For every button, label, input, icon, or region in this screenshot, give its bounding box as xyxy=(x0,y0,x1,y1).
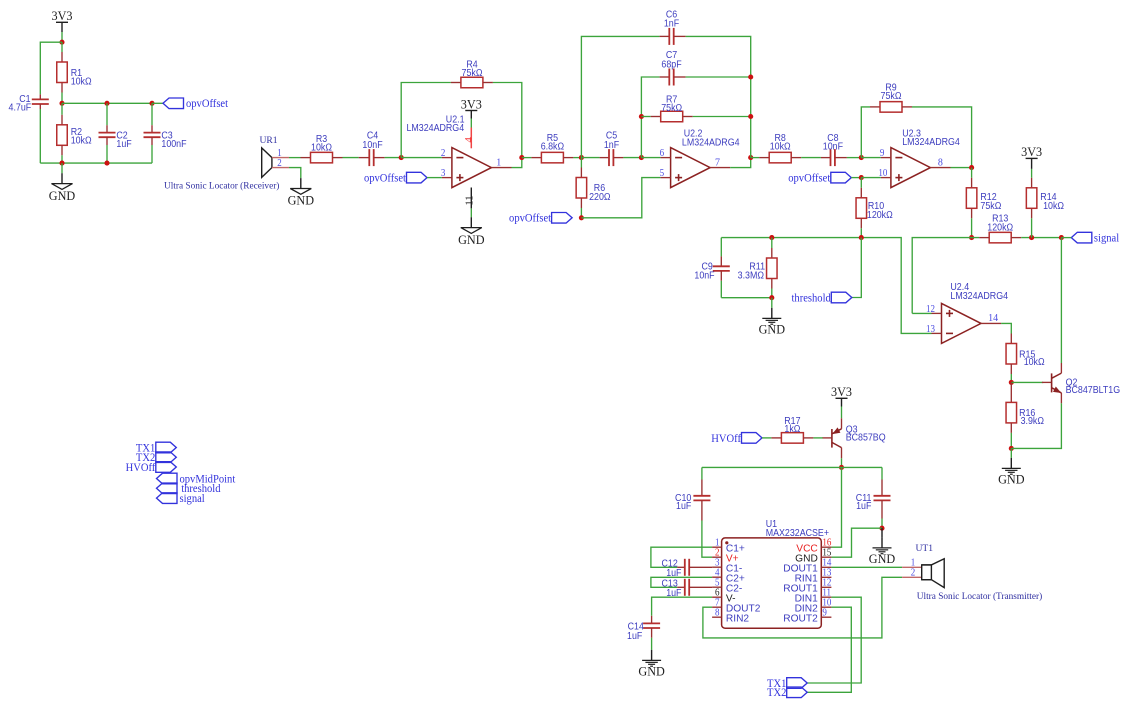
wire xyxy=(62,102,152,104)
svg-text:GND: GND xyxy=(759,323,786,337)
svg-text:10: 10 xyxy=(822,598,831,609)
svg-text:3V3: 3V3 xyxy=(831,385,852,399)
resistor R8 xyxy=(759,157,769,159)
global label TX1 stack xyxy=(156,442,177,453)
svg-text:threshold: threshold xyxy=(791,292,831,304)
node junction xyxy=(59,161,64,166)
svg-text:GND: GND xyxy=(869,552,896,566)
pin 9 U1 xyxy=(821,616,831,618)
pin 13 U2.4 xyxy=(932,332,942,334)
svg-text:10kΩ: 10kΩ xyxy=(311,142,332,154)
pin 1 U2.1 output xyxy=(491,167,511,169)
wire threshold rail xyxy=(721,238,931,334)
wire xyxy=(61,22,63,32)
wire pin10 to TX2 xyxy=(807,607,851,692)
wire xyxy=(721,297,772,299)
svg-text:75kΩ: 75kΩ xyxy=(980,200,1001,212)
pin 2 UR1 xyxy=(272,167,289,169)
pin 5 U2.2 xyxy=(661,177,671,179)
svg-text:1uF: 1uF xyxy=(116,138,131,150)
wire xyxy=(762,437,771,439)
capacitor C4 xyxy=(359,157,370,159)
wire bottom rail xyxy=(40,162,152,164)
wire xyxy=(151,145,153,163)
node junction xyxy=(839,465,844,470)
node junction xyxy=(399,155,404,160)
node junction xyxy=(59,101,64,106)
op-amp U2.3 xyxy=(891,148,931,188)
svg-text:opvOffset: opvOffset xyxy=(364,172,406,184)
svg-text:12: 12 xyxy=(926,304,935,315)
svg-text:1: 1 xyxy=(277,149,282,160)
svg-text:10kΩ: 10kΩ xyxy=(770,141,791,153)
svg-text:GND: GND xyxy=(638,665,665,679)
svg-text:1uF: 1uF xyxy=(627,631,642,643)
svg-text:1nF: 1nF xyxy=(664,18,679,30)
global label opvOffset U2.3 xyxy=(831,172,852,183)
wire xyxy=(912,312,931,314)
capacitor C11 xyxy=(881,480,883,496)
wire xyxy=(841,458,843,467)
node junction xyxy=(859,175,864,180)
wire xyxy=(881,519,883,529)
resistor R7 xyxy=(651,116,661,118)
svg-text:GND: GND xyxy=(998,473,1025,487)
svg-text:opvOffset: opvOffset xyxy=(186,98,228,110)
node junction xyxy=(969,235,974,240)
wire xyxy=(841,407,843,419)
node junction xyxy=(59,40,64,45)
svg-text:220Ω: 220Ω xyxy=(589,192,610,204)
ground GND C11 xyxy=(881,528,883,537)
wire xyxy=(861,177,881,179)
svg-text:signal: signal xyxy=(180,493,205,505)
ground GND R11 xyxy=(771,308,773,319)
svg-text:4.7uF: 4.7uF xyxy=(9,102,32,114)
svg-text:LM324ADRG4: LM324ADRG4 xyxy=(407,123,465,135)
pin 3 U2.1 xyxy=(442,177,452,179)
node junction xyxy=(104,161,109,166)
global label HVOff stack xyxy=(156,462,177,473)
svg-text:10kΩ: 10kΩ xyxy=(71,135,92,147)
node junction xyxy=(1009,380,1014,385)
wire xyxy=(61,42,63,52)
svg-text:ROUT2: ROUT2 xyxy=(783,613,818,624)
svg-text:2: 2 xyxy=(441,149,446,160)
pin 5 U1 xyxy=(712,586,722,588)
wire xyxy=(693,116,751,118)
pin 9 U2.3 xyxy=(881,157,891,159)
wire xyxy=(720,281,722,298)
wire xyxy=(289,157,301,159)
wire xyxy=(470,111,472,119)
pin emitter Q2 xyxy=(1060,393,1062,403)
global label opvOffset U2.1 xyxy=(407,172,428,183)
wire R4 loop left xyxy=(401,83,451,158)
svg-text:75kΩ: 75kΩ xyxy=(661,102,682,114)
wire xyxy=(581,178,660,218)
global label signal stack xyxy=(157,493,178,504)
svg-text:1uF: 1uF xyxy=(856,500,871,512)
wire R9 loop xyxy=(861,107,870,158)
wire xyxy=(686,76,751,78)
pin 1 UT1 xyxy=(902,566,922,568)
svg-text:1: 1 xyxy=(911,558,916,569)
node junction xyxy=(748,155,753,160)
svg-text:10kΩ: 10kΩ xyxy=(1043,200,1064,212)
wire xyxy=(771,289,773,298)
wire xyxy=(702,521,712,558)
wire xyxy=(580,208,582,218)
ground GND C14 xyxy=(651,650,653,661)
svg-text:3V3: 3V3 xyxy=(1021,145,1042,159)
wire pin4 to C13 xyxy=(651,577,712,587)
wire xyxy=(39,94,41,99)
svg-text:Ultra Sonic Locator (Transmitt: Ultra Sonic Locator (Transmitter) xyxy=(917,591,1042,602)
svg-text:1: 1 xyxy=(715,538,720,549)
pin1 dot xyxy=(725,541,728,544)
resistor R13 xyxy=(979,237,989,239)
pin 12 U2.4 xyxy=(932,312,942,314)
svg-text:6.8kΩ: 6.8kΩ xyxy=(541,141,564,153)
pin 13 U1 xyxy=(821,576,831,578)
svg-text:1uF: 1uF xyxy=(676,500,691,512)
pin 14 U2.4 output xyxy=(981,322,1001,324)
pin 4 U1 xyxy=(712,576,722,578)
wire xyxy=(61,163,63,173)
wire xyxy=(1060,238,1062,363)
ground GND xyxy=(61,173,63,183)
svg-text:3.3MΩ: 3.3MΩ xyxy=(738,270,764,282)
wire xyxy=(106,103,108,125)
wire pin1 to C12 xyxy=(651,547,712,567)
svg-text:120kΩ: 120kΩ xyxy=(987,222,1013,234)
node junction xyxy=(748,74,753,79)
capacitor C5 xyxy=(600,157,609,159)
svg-text:15: 15 xyxy=(822,548,831,559)
ground GND U2.1 xyxy=(470,217,472,227)
pin 10 U1 xyxy=(821,606,831,608)
wire xyxy=(401,157,442,159)
wire xyxy=(1010,374,1012,382)
ic U1 MAX232 xyxy=(722,538,822,628)
wire threshold stub xyxy=(852,238,862,298)
wire xyxy=(39,104,41,109)
node junction xyxy=(519,155,524,160)
pin base Q3 xyxy=(823,437,832,439)
svg-text:10kΩ: 10kΩ xyxy=(1024,357,1045,369)
svg-text:120kΩ: 120kΩ xyxy=(867,210,893,222)
svg-text:3V3: 3V3 xyxy=(461,97,482,111)
svg-text:14: 14 xyxy=(822,558,831,569)
wire xyxy=(522,157,532,159)
svg-text:6: 6 xyxy=(660,149,665,160)
capacitor C14 xyxy=(651,616,653,624)
wire R4 loop right xyxy=(493,83,522,158)
speaker UT1 xyxy=(922,565,932,580)
resistor R16 xyxy=(1010,382,1012,402)
wire xyxy=(427,177,442,179)
wire xyxy=(512,158,522,168)
svg-text:UR1: UR1 xyxy=(259,135,277,146)
pin 11 U2.1 xyxy=(470,188,472,209)
svg-text:5: 5 xyxy=(715,578,720,589)
svg-text:opvOffset: opvOffset xyxy=(788,172,830,184)
resistor R12 xyxy=(971,168,973,178)
wire xyxy=(1031,169,1033,178)
wire xyxy=(623,157,641,159)
wire xyxy=(971,218,973,237)
svg-text:2: 2 xyxy=(715,548,720,559)
ground GND xyxy=(300,178,302,188)
svg-text:RIN2: RIN2 xyxy=(726,613,750,624)
svg-text:LM324ADRG4: LM324ADRG4 xyxy=(682,137,740,149)
wire signal rail xyxy=(912,238,979,314)
node junction xyxy=(579,215,584,220)
wire xyxy=(813,437,823,439)
pin 6 U1 xyxy=(712,596,722,598)
svg-text:68pF: 68pF xyxy=(661,59,681,71)
svg-text:2: 2 xyxy=(277,159,282,170)
pin 1 U1 xyxy=(712,546,722,548)
svg-text:4: 4 xyxy=(463,137,475,143)
svg-text:LM324ADRG4: LM324ADRG4 xyxy=(902,137,960,149)
svg-text:7: 7 xyxy=(715,598,720,609)
transistor Q3 xyxy=(841,418,843,429)
global label opvOffset xyxy=(163,98,184,109)
wire xyxy=(831,467,841,547)
resistor R17 xyxy=(771,437,781,439)
pin 14 U1 xyxy=(821,566,831,568)
node junction xyxy=(769,295,774,300)
pin 11 U1 xyxy=(821,596,831,598)
wire xyxy=(1021,237,1061,239)
node junction xyxy=(1059,235,1064,240)
pin 2 U2.1 xyxy=(442,157,452,159)
resistor R3 xyxy=(301,157,311,159)
svg-text:13: 13 xyxy=(822,568,831,579)
capacitor C12 xyxy=(677,566,685,568)
pin 1 UR1 xyxy=(272,157,289,159)
wire xyxy=(151,103,153,125)
svg-text:UT1: UT1 xyxy=(916,543,934,554)
node junction xyxy=(859,155,864,160)
wire xyxy=(61,103,63,115)
svg-text:MAX232ACSE+: MAX232ACSE+ xyxy=(766,527,830,539)
wire pin11 to TX1 xyxy=(807,597,861,683)
svg-text:11: 11 xyxy=(822,588,831,599)
wire xyxy=(851,177,861,179)
wire xyxy=(573,157,581,159)
pin 12 U1 xyxy=(821,586,831,588)
svg-text:75kΩ: 75kΩ xyxy=(881,90,902,102)
wire xyxy=(289,168,301,179)
wire xyxy=(106,145,108,163)
transistor Q2 xyxy=(1042,381,1052,383)
wire xyxy=(152,102,163,104)
wire xyxy=(686,36,751,157)
wire xyxy=(641,116,650,118)
svg-text:1nF: 1nF xyxy=(604,139,619,151)
global label opvMidPoint xyxy=(157,473,178,484)
svg-text:6: 6 xyxy=(715,588,720,599)
pin 16 U1 xyxy=(821,546,831,548)
node junction xyxy=(748,114,753,119)
pin 8 U1 xyxy=(712,616,722,618)
svg-text:8: 8 xyxy=(938,157,943,168)
wire xyxy=(61,155,63,163)
resistor R6 xyxy=(580,158,582,168)
wire xyxy=(730,158,751,168)
wire xyxy=(771,298,773,308)
wire pin6 to C14 xyxy=(652,597,713,616)
node junction xyxy=(1009,446,1014,451)
svg-text:9: 9 xyxy=(822,608,827,619)
svg-text:5: 5 xyxy=(660,169,665,180)
wire C9 leg xyxy=(720,238,722,257)
wire xyxy=(1010,448,1012,458)
wire C7 row xyxy=(641,77,659,158)
op-amp U2.1 xyxy=(452,148,492,188)
global label TX2 xyxy=(787,687,808,698)
pin 8 U2.3 output xyxy=(930,167,950,169)
svg-text:10kΩ: 10kΩ xyxy=(71,76,92,88)
global label TX2 stack xyxy=(156,452,177,463)
resistor R15 xyxy=(1010,334,1012,344)
wire xyxy=(1011,403,1061,448)
svg-text:16: 16 xyxy=(822,538,831,549)
node junction xyxy=(879,526,884,531)
resistor R2 xyxy=(61,115,63,125)
wire xyxy=(343,157,359,159)
capacitor C10 xyxy=(701,480,703,496)
svg-text:GND: GND xyxy=(288,194,315,208)
wire xyxy=(40,42,62,94)
svg-text:1: 1 xyxy=(496,157,501,168)
svg-text:opvOffset: opvOffset xyxy=(509,212,551,224)
capacitor C9 xyxy=(720,256,722,266)
svg-text:Ultra Sonic Locator (Receiver): Ultra Sonic Locator (Receiver) xyxy=(164,181,279,192)
wire xyxy=(61,32,63,42)
svg-text:8: 8 xyxy=(715,608,720,619)
capacitor C13 xyxy=(677,586,685,588)
wire xyxy=(847,157,861,159)
pin 6 U2.2 xyxy=(661,157,671,159)
wire 3V3 rail xyxy=(702,466,882,468)
svg-text:13: 13 xyxy=(926,324,935,335)
global label opvOffset R6 xyxy=(552,213,573,224)
wire xyxy=(831,528,882,557)
wire xyxy=(1001,323,1011,333)
wire pin7 route xyxy=(703,577,902,638)
wire xyxy=(1031,158,1033,169)
pin 7 U2.2 output xyxy=(710,167,730,169)
svg-text:4: 4 xyxy=(715,568,720,579)
wire C6 row xyxy=(581,36,659,157)
resistor R11 xyxy=(771,238,773,248)
node junction xyxy=(149,101,154,106)
svg-text:HVOff: HVOff xyxy=(711,432,741,444)
capacitor C2 xyxy=(106,125,108,132)
capacitor C8 xyxy=(821,157,831,159)
global label TX1 xyxy=(787,678,808,689)
svg-text:TX2: TX2 xyxy=(767,687,786,699)
node junction xyxy=(969,165,974,170)
svg-text:10nF: 10nF xyxy=(362,139,382,151)
op-amp U2.4 xyxy=(942,303,982,343)
resistor R5 xyxy=(531,157,541,159)
global label HVOff xyxy=(742,433,763,444)
svg-text:signal: signal xyxy=(1094,232,1119,244)
capacitor C3 xyxy=(151,125,153,132)
wire xyxy=(881,467,883,479)
resistor R10 xyxy=(860,178,862,188)
wire xyxy=(651,638,653,650)
svg-text:75kΩ: 75kΩ xyxy=(462,67,483,79)
wire xyxy=(1010,433,1012,449)
wire xyxy=(841,398,843,406)
svg-text:100nF: 100nF xyxy=(161,138,186,150)
svg-text:LM324ADRG4: LM324ADRG4 xyxy=(950,290,1008,302)
ground GND Q2 xyxy=(1010,458,1012,469)
pin 15 U1 xyxy=(821,556,831,558)
node junction xyxy=(1029,235,1034,240)
global label threshold stack xyxy=(157,483,178,494)
svg-text:11: 11 xyxy=(464,195,475,205)
pin 2 U1 xyxy=(712,556,722,558)
wire xyxy=(751,157,760,159)
capacitor C1 xyxy=(32,98,49,100)
op-amp U2.2 xyxy=(671,148,711,188)
svg-text:7: 7 xyxy=(715,157,720,168)
svg-text:9: 9 xyxy=(880,149,885,160)
resistor R1 xyxy=(61,52,63,62)
svg-text:GND: GND xyxy=(458,233,485,247)
pin 3 U1 xyxy=(712,566,722,568)
wire xyxy=(801,157,821,159)
svg-text:3: 3 xyxy=(715,558,720,569)
svg-text:3.9kΩ: 3.9kΩ xyxy=(1021,416,1044,428)
global label signal xyxy=(1071,232,1092,243)
wire xyxy=(951,167,972,169)
global label threshold xyxy=(831,292,852,303)
node junction xyxy=(769,235,774,240)
wire xyxy=(912,107,972,168)
resistor R4 xyxy=(451,82,461,84)
capacitor C6 xyxy=(660,35,670,37)
wire xyxy=(1011,381,1043,383)
svg-text:10nF: 10nF xyxy=(823,141,843,153)
node junction xyxy=(639,155,644,160)
svg-text:GND: GND xyxy=(49,189,76,203)
capacitor C7 xyxy=(660,76,670,78)
svg-text:3V3: 3V3 xyxy=(52,9,73,23)
wire xyxy=(581,157,599,159)
svg-text:2: 2 xyxy=(911,568,916,579)
wire xyxy=(1031,218,1033,237)
pin 7 U1 xyxy=(712,606,722,608)
wire xyxy=(860,228,862,237)
svg-text:1kΩ: 1kΩ xyxy=(784,424,800,436)
pin 2 UT1 xyxy=(902,576,922,578)
wire xyxy=(39,109,41,163)
pin collector Q2 xyxy=(1060,363,1062,373)
svg-text:14: 14 xyxy=(988,313,998,324)
pin collector Q3 xyxy=(841,448,843,459)
pin 10 U2.3 xyxy=(881,177,891,179)
svg-text:10nF: 10nF xyxy=(694,270,714,282)
wire xyxy=(861,157,881,159)
